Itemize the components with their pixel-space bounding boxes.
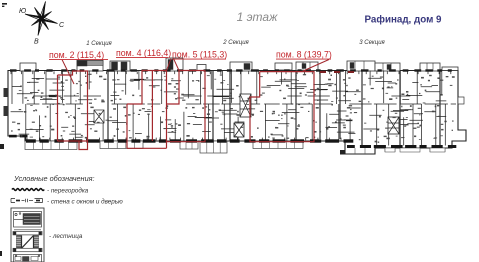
legend: partition symbol (wavy bar) [12, 189, 44, 191]
leader пом.4 [167, 59, 172, 71]
leader пом.2 [62, 60, 74, 85]
svg-text:Ю: Ю [19, 8, 26, 15]
svg-text:пом. 2 (115,4): пом. 2 (115,4) [49, 50, 104, 60]
compass rose [25, 2, 58, 36]
svg-text:В: В [34, 39, 39, 46]
svg-text:пом. 5 (115,3): пом. 5 (115,3) [172, 50, 227, 60]
svg-text:Условные обозначения:: Условные обозначения: [13, 174, 95, 183]
svg-text:3 Секция: 3 Секция [359, 40, 385, 46]
svg-text:1 Секция: 1 Секция [86, 41, 112, 47]
red outline пом.5 [167, 59, 206, 142]
left edge small boxes [4, 88, 9, 97]
left edge stray blobs [0, 144, 4, 149]
red outline пом.4 [127, 59, 171, 149]
leader пом.5 [174, 59, 180, 71]
tiny dimension marks [11, 74, 455, 143]
red room labels [49, 48, 332, 60]
bottom wall dashes [9, 135, 456, 148]
balcony strips [25, 141, 77, 150]
svg-text:- лестница: - лестница [49, 233, 83, 240]
compass labels [19, 8, 65, 46]
interior heavy unit walls [108, 71, 440, 148]
svg-text:- стена с окном и дверью: - стена с окном и дверью [47, 198, 123, 206]
svg-text:1 этаж: 1 этаж [237, 10, 278, 24]
legend: wall with window and door symbol [11, 199, 43, 203]
dark red window dashes right of пом.8 [320, 71, 354, 73]
red outline пом.2 [58, 60, 88, 150]
stair / lift cores [240, 94, 251, 117]
svg-text:пом. 4 (116,4): пом. 4 (116,4) [116, 48, 171, 58]
interior thin walls [11, 71, 456, 146]
leader пом.8 [303, 60, 329, 72]
terrace dividers bottom right [355, 144, 445, 154]
building outline [8, 71, 466, 155]
right edge small box [458, 97, 464, 104]
svg-text:- перегородка: - перегородка [47, 187, 89, 195]
section labels [86, 40, 385, 47]
svg-text:пом. 8 (139,7): пом. 8 (139,7) [276, 50, 332, 60]
red outline пом.8 [250, 60, 329, 142]
svg-text:Рафинад, дом 9: Рафинад, дом 9 [365, 15, 443, 26]
legend: staircase drawing [11, 208, 44, 262]
stray mark top-left corner [2, 3, 7, 7]
svg-text:2 Секция: 2 Секция [222, 40, 249, 46]
top wall dashes [10, 69, 452, 71]
entrance porch bumps along top wall [20, 63, 36, 71]
